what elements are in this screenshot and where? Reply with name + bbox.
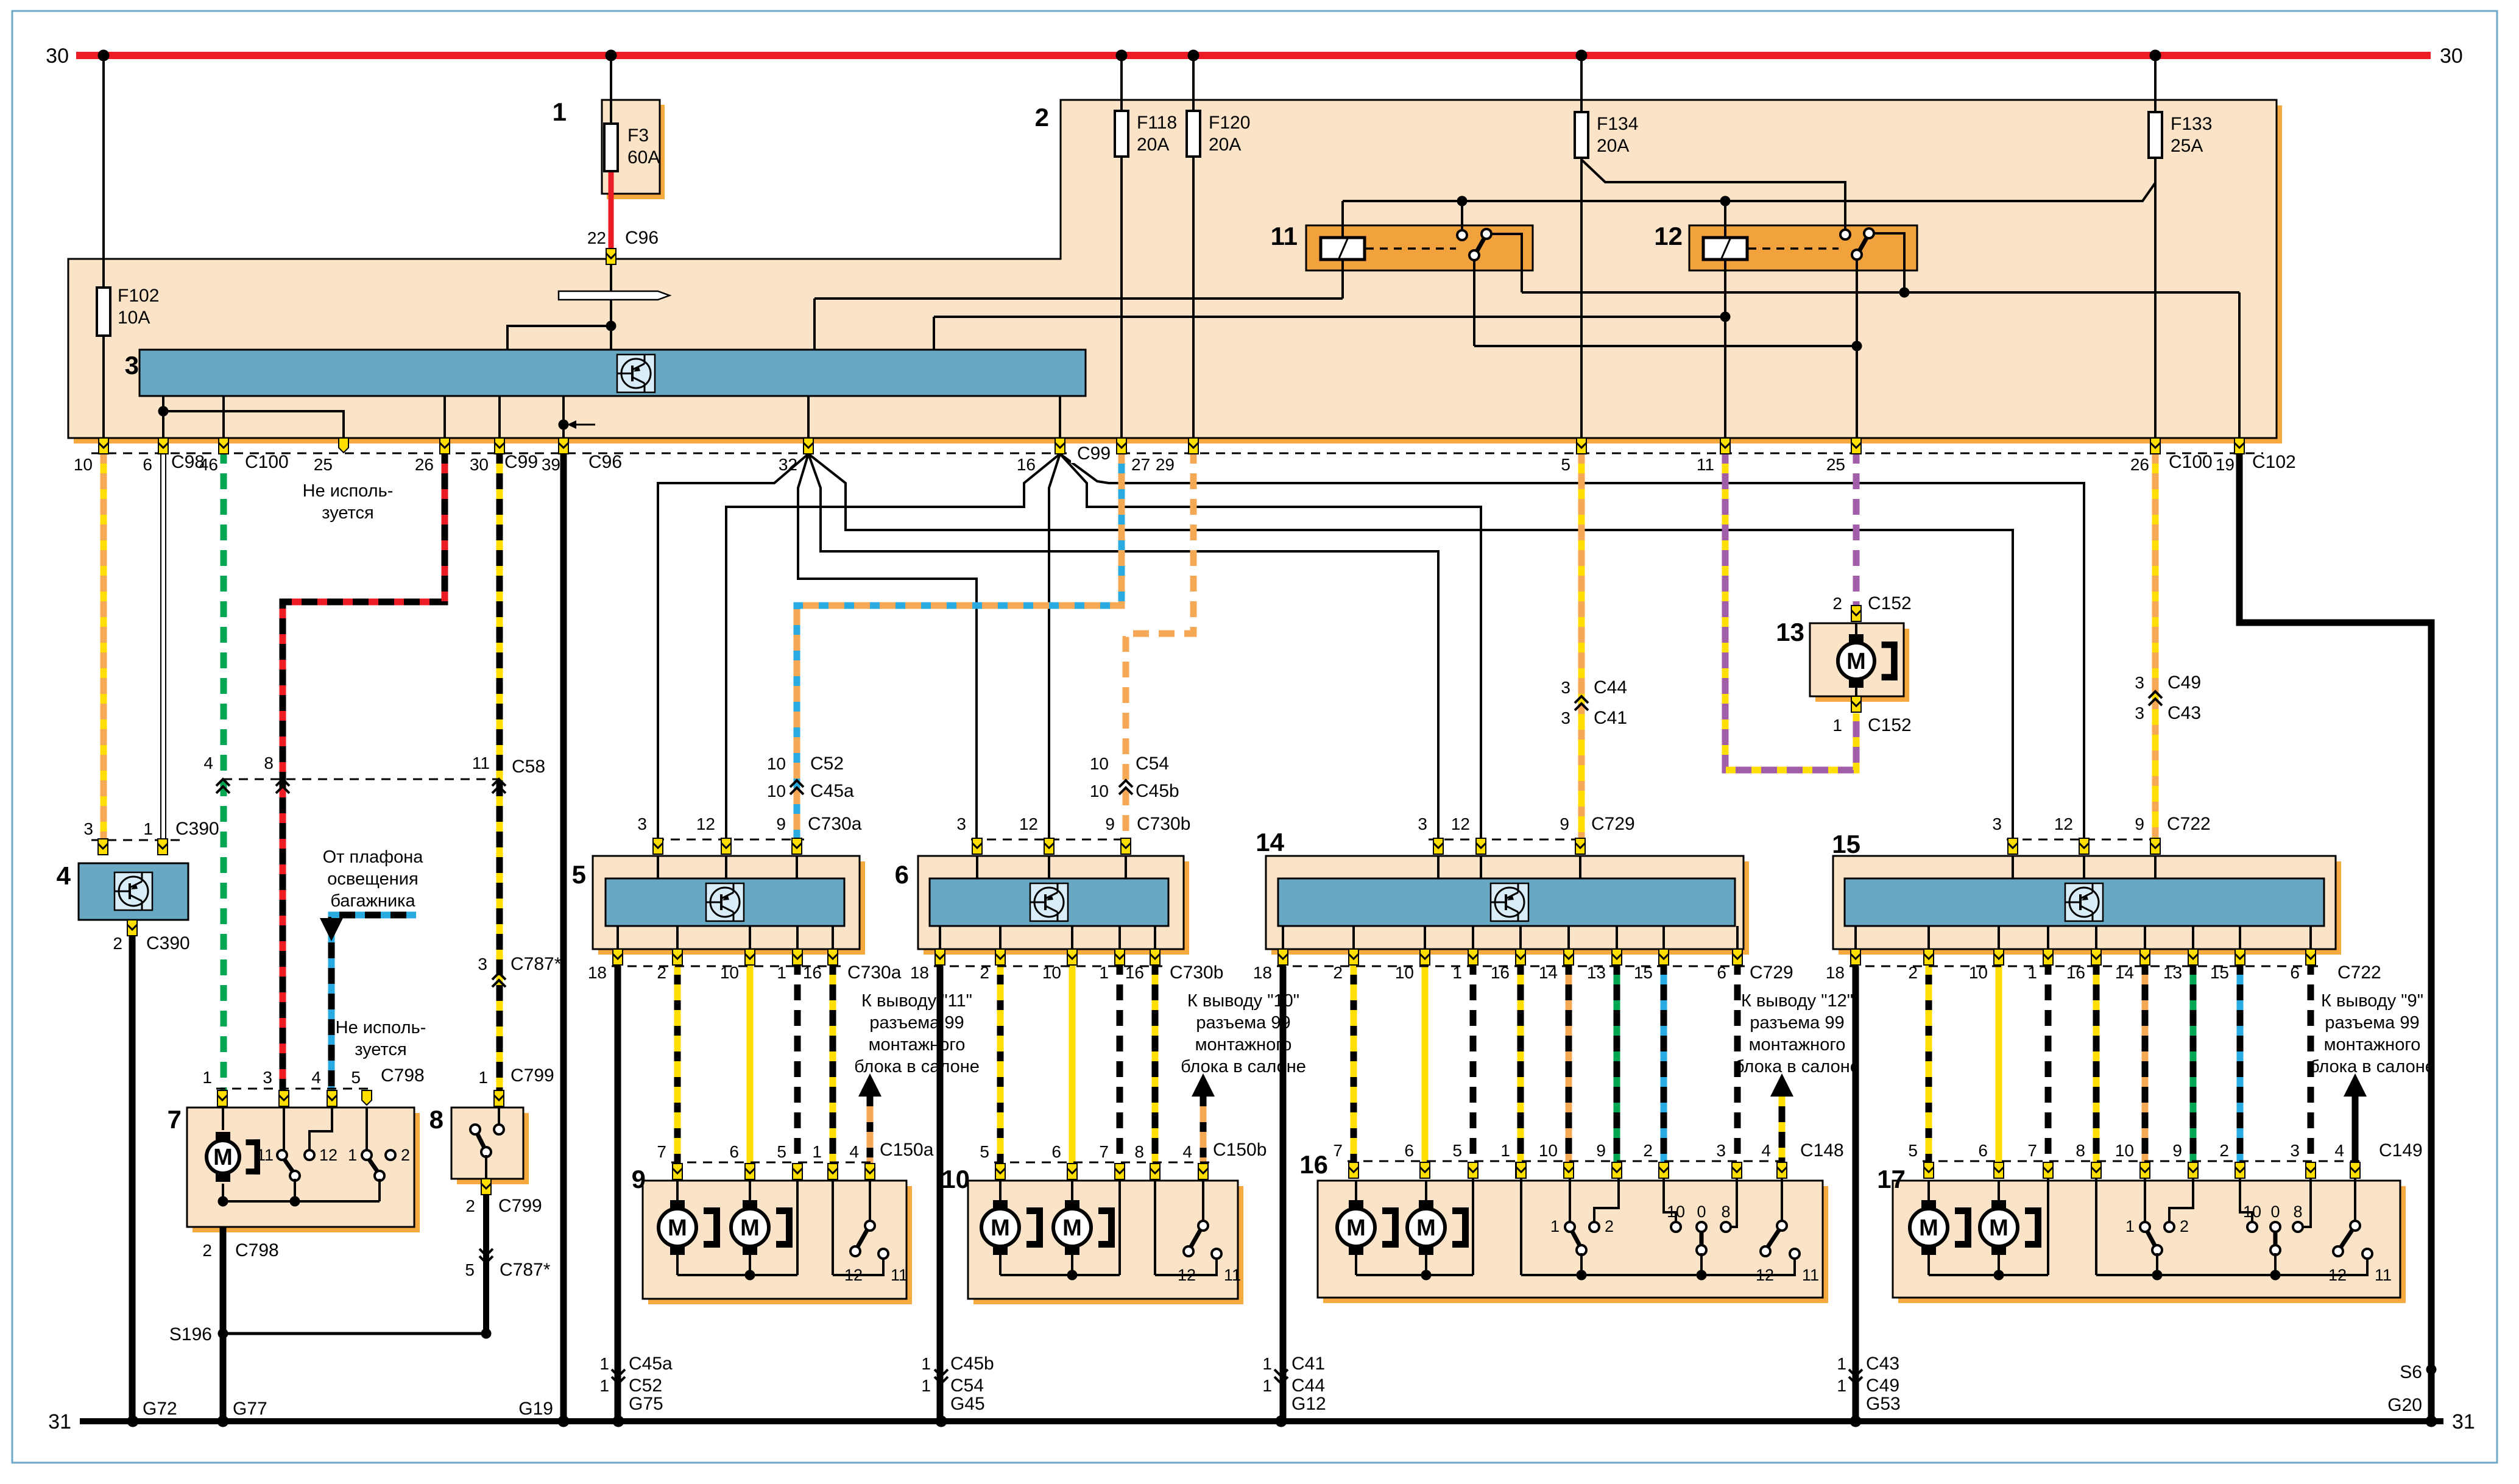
svg-text:1: 1 bbox=[143, 819, 153, 838]
svg-text:5: 5 bbox=[777, 1142, 786, 1161]
svg-text:C58: C58 bbox=[512, 757, 545, 777]
svg-text:F134: F134 bbox=[1597, 114, 1638, 134]
svg-text:S196: S196 bbox=[169, 1324, 212, 1344]
svg-text:разъема 99: разъема 99 bbox=[2325, 1013, 2419, 1033]
svg-text:блока в салоне: блока в салоне bbox=[854, 1057, 980, 1076]
svg-text:10: 10 bbox=[1042, 963, 1061, 982]
svg-text:G72: G72 bbox=[143, 1399, 177, 1419]
svg-text:10: 10 bbox=[767, 754, 786, 773]
svg-text:1: 1 bbox=[1550, 1217, 1560, 1235]
svg-text:3: 3 bbox=[1561, 678, 1570, 697]
svg-text:C44: C44 bbox=[1291, 1376, 1325, 1396]
svg-text:2: 2 bbox=[1605, 1217, 1614, 1235]
svg-text:11: 11 bbox=[256, 1146, 274, 1164]
svg-text:C98: C98 bbox=[171, 452, 205, 472]
svg-text:5: 5 bbox=[351, 1068, 361, 1087]
svg-text:2: 2 bbox=[2219, 1141, 2229, 1160]
svg-text:2: 2 bbox=[1643, 1141, 1653, 1160]
svg-text:C150b: C150b bbox=[1213, 1140, 1267, 1160]
svg-text:1: 1 bbox=[599, 1376, 609, 1395]
svg-text:2: 2 bbox=[1908, 963, 1918, 982]
svg-text:освещения: освещения bbox=[327, 869, 418, 889]
svg-text:M: M bbox=[1346, 1215, 1366, 1241]
svg-text:C52: C52 bbox=[629, 1376, 662, 1396]
svg-text:разъема 99: разъема 99 bbox=[869, 1013, 964, 1033]
svg-text:6: 6 bbox=[1404, 1141, 1414, 1160]
svg-text:C100: C100 bbox=[245, 452, 289, 472]
svg-text:6: 6 bbox=[2290, 963, 2300, 982]
svg-text:M: M bbox=[1846, 649, 1866, 674]
svg-text:25A: 25A bbox=[2171, 136, 2203, 156]
svg-text:16: 16 bbox=[1491, 963, 1510, 982]
svg-text:20A: 20A bbox=[1137, 135, 1169, 155]
svg-text:6: 6 bbox=[1978, 1141, 1988, 1160]
svg-text:F120: F120 bbox=[1209, 113, 1250, 133]
svg-text:M: M bbox=[668, 1215, 687, 1241]
svg-text:7: 7 bbox=[2027, 1141, 2037, 1160]
svg-text:12: 12 bbox=[1178, 1266, 1196, 1284]
svg-text:Не исполь-: Не исполь- bbox=[303, 481, 394, 501]
svg-text:блока в салоне: блока в салоне bbox=[1181, 1057, 1306, 1076]
svg-text:3: 3 bbox=[637, 814, 647, 833]
svg-text:C730a: C730a bbox=[808, 814, 862, 834]
svg-text:3: 3 bbox=[478, 955, 487, 973]
svg-text:30: 30 bbox=[46, 44, 69, 68]
svg-text:C102: C102 bbox=[2252, 452, 2296, 472]
svg-text:C44: C44 bbox=[1594, 677, 1627, 698]
svg-text:4: 4 bbox=[57, 861, 71, 890]
svg-text:26: 26 bbox=[2130, 455, 2149, 474]
svg-text:22: 22 bbox=[587, 228, 606, 247]
svg-text:20A: 20A bbox=[1209, 135, 1241, 155]
svg-text:К выводу "11": К выводу "11" bbox=[861, 991, 972, 1011]
svg-text:5: 5 bbox=[980, 1142, 989, 1161]
svg-text:7: 7 bbox=[1333, 1141, 1343, 1160]
svg-text:13: 13 bbox=[1776, 618, 1804, 646]
svg-text:12: 12 bbox=[696, 814, 715, 833]
svg-text:Не исполь-: Не исполь- bbox=[336, 1018, 426, 1037]
svg-text:монтажного: монтажного bbox=[1749, 1035, 1846, 1055]
svg-text:C99: C99 bbox=[1077, 443, 1111, 464]
svg-text:10: 10 bbox=[1090, 754, 1109, 773]
svg-text:3: 3 bbox=[1992, 814, 2002, 833]
svg-text:13: 13 bbox=[1587, 963, 1606, 982]
svg-text:6: 6 bbox=[1051, 1142, 1061, 1161]
svg-text:1: 1 bbox=[1099, 963, 1109, 982]
svg-text:M: M bbox=[1989, 1215, 2008, 1241]
svg-text:C152: C152 bbox=[1868, 593, 1912, 613]
svg-text:2: 2 bbox=[980, 963, 989, 982]
svg-text:9: 9 bbox=[632, 1165, 646, 1193]
svg-text:11: 11 bbox=[891, 1266, 908, 1284]
svg-text:18: 18 bbox=[910, 963, 929, 982]
svg-text:монтажного: монтажного bbox=[869, 1035, 966, 1055]
svg-text:16: 16 bbox=[1017, 455, 1036, 474]
svg-text:C722: C722 bbox=[2337, 963, 2381, 983]
svg-text:C49: C49 bbox=[1866, 1376, 1899, 1396]
svg-text:8: 8 bbox=[1721, 1203, 1730, 1221]
svg-text:19: 19 bbox=[2216, 455, 2235, 474]
svg-text:M: M bbox=[1062, 1215, 1082, 1241]
svg-text:От плафона: От плафона bbox=[323, 847, 424, 867]
svg-text:монтажного: монтажного bbox=[1195, 1035, 1292, 1055]
svg-text:C799: C799 bbox=[511, 1065, 554, 1086]
svg-text:G20: G20 bbox=[2387, 1395, 2422, 1415]
svg-text:1: 1 bbox=[348, 1146, 357, 1164]
svg-text:10: 10 bbox=[1969, 963, 1988, 982]
svg-text:3: 3 bbox=[956, 814, 966, 833]
svg-text:5: 5 bbox=[1561, 455, 1570, 474]
svg-text:4: 4 bbox=[2334, 1141, 2344, 1160]
svg-text:10: 10 bbox=[1090, 782, 1109, 800]
svg-text:3: 3 bbox=[125, 351, 139, 380]
svg-text:12: 12 bbox=[844, 1266, 863, 1284]
svg-text:G53: G53 bbox=[1866, 1394, 1901, 1414]
svg-text:C52: C52 bbox=[810, 754, 844, 774]
svg-text:14: 14 bbox=[2115, 963, 2134, 982]
svg-text:C787*: C787* bbox=[500, 1260, 551, 1280]
svg-text:F133: F133 bbox=[2171, 114, 2212, 134]
svg-text:2: 2 bbox=[202, 1241, 212, 1260]
svg-text:1: 1 bbox=[478, 1068, 488, 1087]
svg-text:1: 1 bbox=[599, 1354, 609, 1373]
svg-text:10: 10 bbox=[1395, 963, 1414, 982]
svg-text:2: 2 bbox=[657, 963, 666, 982]
svg-text:11: 11 bbox=[1802, 1266, 1819, 1284]
svg-text:C798: C798 bbox=[381, 1065, 425, 1086]
svg-text:8: 8 bbox=[2076, 1141, 2085, 1160]
svg-text:6: 6 bbox=[729, 1142, 739, 1161]
svg-text:1: 1 bbox=[1452, 963, 1462, 982]
svg-text:C45b: C45b bbox=[1136, 781, 1179, 801]
svg-text:14: 14 bbox=[1256, 828, 1284, 857]
svg-text:зуется: зуется bbox=[322, 503, 373, 523]
svg-text:2: 2 bbox=[1832, 594, 1842, 613]
svg-text:30: 30 bbox=[2440, 44, 2463, 68]
svg-text:6: 6 bbox=[1717, 963, 1726, 982]
svg-text:0: 0 bbox=[2270, 1203, 2280, 1221]
svg-text:разъема 99: разъема 99 bbox=[1196, 1013, 1290, 1033]
svg-text:15: 15 bbox=[1634, 963, 1653, 982]
svg-text:3: 3 bbox=[1418, 814, 1427, 833]
svg-text:6: 6 bbox=[895, 860, 909, 889]
svg-text:12: 12 bbox=[1451, 814, 1470, 833]
svg-text:C100: C100 bbox=[2169, 452, 2213, 472]
svg-text:1: 1 bbox=[1837, 1376, 1846, 1395]
svg-text:C49: C49 bbox=[2167, 673, 2201, 693]
svg-text:F118: F118 bbox=[1137, 113, 1177, 133]
svg-text:15: 15 bbox=[1832, 830, 1860, 858]
svg-text:32: 32 bbox=[779, 455, 797, 474]
svg-text:11: 11 bbox=[1697, 455, 1714, 474]
svg-text:багажника: багажника bbox=[330, 891, 415, 911]
svg-text:1: 1 bbox=[202, 1068, 212, 1087]
svg-text:26: 26 bbox=[415, 455, 434, 474]
svg-text:9: 9 bbox=[1560, 814, 1569, 833]
svg-text:C43: C43 bbox=[2167, 703, 2201, 723]
svg-text:M: M bbox=[991, 1215, 1010, 1241]
svg-text:3: 3 bbox=[2135, 704, 2144, 723]
svg-text:1: 1 bbox=[812, 1142, 822, 1161]
svg-text:8: 8 bbox=[2293, 1203, 2302, 1221]
svg-text:C730b: C730b bbox=[1170, 963, 1223, 983]
svg-text:30: 30 bbox=[470, 455, 489, 474]
svg-text:M: M bbox=[1919, 1215, 1938, 1241]
svg-text:разъема 99: разъема 99 bbox=[1750, 1013, 1844, 1033]
svg-text:2: 2 bbox=[1333, 963, 1343, 982]
svg-text:12: 12 bbox=[1654, 222, 1683, 250]
svg-text:7: 7 bbox=[1099, 1142, 1109, 1161]
svg-text:18: 18 bbox=[1253, 963, 1272, 982]
svg-text:C150a: C150a bbox=[880, 1140, 934, 1160]
svg-text:2: 2 bbox=[1035, 103, 1049, 132]
svg-text:C729: C729 bbox=[1750, 963, 1793, 983]
svg-text:16: 16 bbox=[1299, 1150, 1328, 1179]
svg-text:13: 13 bbox=[2163, 963, 2182, 982]
svg-text:16: 16 bbox=[1125, 963, 1144, 982]
svg-text:1: 1 bbox=[2125, 1217, 2135, 1235]
svg-text:10: 10 bbox=[941, 1165, 970, 1193]
svg-text:монтажного: монтажного bbox=[2324, 1035, 2421, 1055]
svg-text:4: 4 bbox=[1182, 1142, 1192, 1161]
svg-text:12: 12 bbox=[1019, 814, 1038, 833]
svg-text:2: 2 bbox=[465, 1196, 475, 1215]
svg-text:1: 1 bbox=[1832, 716, 1842, 735]
svg-text:10: 10 bbox=[720, 963, 739, 982]
svg-text:12: 12 bbox=[1756, 1266, 1774, 1284]
svg-text:3: 3 bbox=[83, 819, 93, 838]
svg-text:0: 0 bbox=[1697, 1203, 1706, 1221]
svg-text:8: 8 bbox=[264, 754, 274, 772]
svg-text:S6: S6 bbox=[2400, 1362, 2422, 1382]
svg-text:C45a: C45a bbox=[629, 1354, 673, 1374]
svg-text:1: 1 bbox=[1262, 1376, 1272, 1395]
svg-text:4: 4 bbox=[311, 1068, 321, 1087]
svg-text:C45b: C45b bbox=[950, 1354, 994, 1374]
svg-text:10: 10 bbox=[2243, 1203, 2261, 1221]
svg-text:5: 5 bbox=[572, 860, 586, 889]
svg-text:C96: C96 bbox=[625, 228, 659, 248]
svg-text:9: 9 bbox=[1105, 814, 1115, 833]
svg-text:31: 31 bbox=[2452, 1410, 2475, 1433]
svg-text:C799: C799 bbox=[498, 1196, 542, 1216]
svg-text:1: 1 bbox=[921, 1354, 931, 1373]
svg-text:G75: G75 bbox=[629, 1394, 663, 1414]
svg-text:11: 11 bbox=[1271, 222, 1298, 250]
svg-text:15: 15 bbox=[2210, 963, 2229, 982]
svg-text:блока в салоне: блока в салоне bbox=[1734, 1057, 1860, 1076]
svg-text:3: 3 bbox=[1716, 1141, 1726, 1160]
svg-text:C730a: C730a bbox=[847, 963, 902, 983]
svg-text:F3: F3 bbox=[627, 125, 649, 146]
svg-text:G45: G45 bbox=[950, 1394, 985, 1414]
svg-text:M: M bbox=[1416, 1215, 1436, 1241]
svg-text:12: 12 bbox=[2054, 814, 2073, 833]
svg-text:К выводу "12": К выводу "12" bbox=[1741, 991, 1853, 1011]
svg-text:G19: G19 bbox=[518, 1399, 553, 1419]
svg-text:39: 39 bbox=[542, 455, 560, 474]
svg-text:9: 9 bbox=[1596, 1141, 1606, 1160]
svg-text:1: 1 bbox=[1500, 1141, 1510, 1160]
svg-text:11: 11 bbox=[472, 754, 490, 772]
svg-text:C41: C41 bbox=[1291, 1354, 1325, 1374]
svg-text:5: 5 bbox=[465, 1260, 475, 1279]
svg-text:11: 11 bbox=[1224, 1266, 1241, 1284]
svg-text:25: 25 bbox=[1826, 455, 1845, 474]
svg-text:C729: C729 bbox=[1591, 814, 1635, 834]
svg-text:3: 3 bbox=[263, 1068, 272, 1087]
svg-text:1: 1 bbox=[2027, 963, 2037, 982]
svg-text:17: 17 bbox=[1877, 1165, 1906, 1193]
svg-text:10: 10 bbox=[1539, 1141, 1558, 1160]
svg-text:25: 25 bbox=[314, 455, 333, 474]
svg-text:C148: C148 bbox=[1800, 1140, 1844, 1161]
svg-text:8: 8 bbox=[1134, 1142, 1144, 1161]
svg-text:C390: C390 bbox=[175, 819, 219, 839]
svg-text:C43: C43 bbox=[1866, 1354, 1899, 1374]
svg-text:16: 16 bbox=[803, 963, 822, 982]
svg-text:9: 9 bbox=[776, 814, 786, 833]
svg-text:2: 2 bbox=[401, 1146, 410, 1164]
svg-text:20A: 20A bbox=[1597, 136, 1629, 156]
svg-text:К выводу "10": К выводу "10" bbox=[1187, 991, 1299, 1011]
svg-text:M: M bbox=[213, 1145, 233, 1170]
svg-text:16: 16 bbox=[2066, 963, 2085, 982]
svg-text:G77: G77 bbox=[233, 1399, 267, 1419]
svg-text:10A: 10A bbox=[118, 308, 150, 328]
svg-text:18: 18 bbox=[1826, 963, 1845, 982]
svg-text:4: 4 bbox=[849, 1142, 859, 1161]
svg-text:10: 10 bbox=[1667, 1203, 1685, 1221]
svg-text:C54: C54 bbox=[1136, 754, 1169, 774]
svg-text:10: 10 bbox=[767, 782, 786, 800]
svg-text:C787*: C787* bbox=[511, 954, 562, 974]
svg-text:1: 1 bbox=[1262, 1354, 1272, 1373]
svg-text:8: 8 bbox=[429, 1105, 443, 1134]
svg-text:12: 12 bbox=[319, 1146, 337, 1164]
svg-text:27: 27 bbox=[1131, 455, 1150, 474]
svg-text:C99: C99 bbox=[504, 452, 538, 472]
svg-text:блока в салоне: блока в салоне bbox=[2309, 1057, 2435, 1076]
svg-text:3: 3 bbox=[2135, 673, 2144, 692]
svg-text:C730b: C730b bbox=[1137, 814, 1190, 834]
svg-text:C152: C152 bbox=[1868, 715, 1912, 735]
svg-text:1: 1 bbox=[777, 963, 786, 982]
svg-text:3: 3 bbox=[2290, 1141, 2300, 1160]
svg-text:C390: C390 bbox=[146, 933, 190, 953]
svg-text:2: 2 bbox=[113, 934, 122, 953]
svg-text:4: 4 bbox=[1761, 1141, 1771, 1160]
svg-text:60A: 60A bbox=[627, 147, 660, 168]
svg-text:18: 18 bbox=[588, 963, 607, 982]
svg-text:1: 1 bbox=[553, 97, 567, 126]
svg-text:12: 12 bbox=[2328, 1266, 2347, 1284]
svg-text:6: 6 bbox=[143, 455, 152, 474]
svg-text:9: 9 bbox=[2172, 1141, 2182, 1160]
svg-text:14: 14 bbox=[1539, 963, 1558, 982]
svg-text:4: 4 bbox=[203, 754, 213, 772]
svg-text:M: M bbox=[740, 1215, 760, 1241]
svg-text:7: 7 bbox=[168, 1105, 182, 1134]
svg-text:10: 10 bbox=[74, 455, 93, 474]
svg-text:1: 1 bbox=[1837, 1354, 1846, 1373]
svg-text:C54: C54 bbox=[950, 1376, 984, 1396]
svg-text:F102: F102 bbox=[118, 286, 159, 306]
svg-text:31: 31 bbox=[48, 1410, 71, 1433]
svg-text:5: 5 bbox=[1908, 1141, 1918, 1160]
svg-text:3: 3 bbox=[1561, 708, 1570, 727]
svg-text:10: 10 bbox=[2115, 1141, 2134, 1160]
svg-text:G12: G12 bbox=[1291, 1394, 1326, 1414]
svg-text:2: 2 bbox=[2180, 1217, 2189, 1235]
svg-text:C149: C149 bbox=[2379, 1140, 2423, 1161]
svg-text:5: 5 bbox=[1452, 1141, 1462, 1160]
svg-text:К выводу "9": К выводу "9" bbox=[2321, 991, 2423, 1011]
svg-text:C45a: C45a bbox=[810, 781, 854, 801]
svg-text:29: 29 bbox=[1156, 455, 1175, 474]
svg-text:C722: C722 bbox=[2167, 814, 2211, 834]
svg-text:C96: C96 bbox=[588, 452, 622, 472]
svg-text:7: 7 bbox=[657, 1142, 666, 1161]
svg-text:зуется: зуется bbox=[355, 1040, 406, 1059]
svg-text:C798: C798 bbox=[235, 1240, 279, 1260]
svg-text:11: 11 bbox=[2375, 1266, 2392, 1284]
svg-text:9: 9 bbox=[2135, 814, 2144, 833]
svg-text:1: 1 bbox=[921, 1376, 931, 1395]
svg-text:C41: C41 bbox=[1594, 708, 1627, 728]
